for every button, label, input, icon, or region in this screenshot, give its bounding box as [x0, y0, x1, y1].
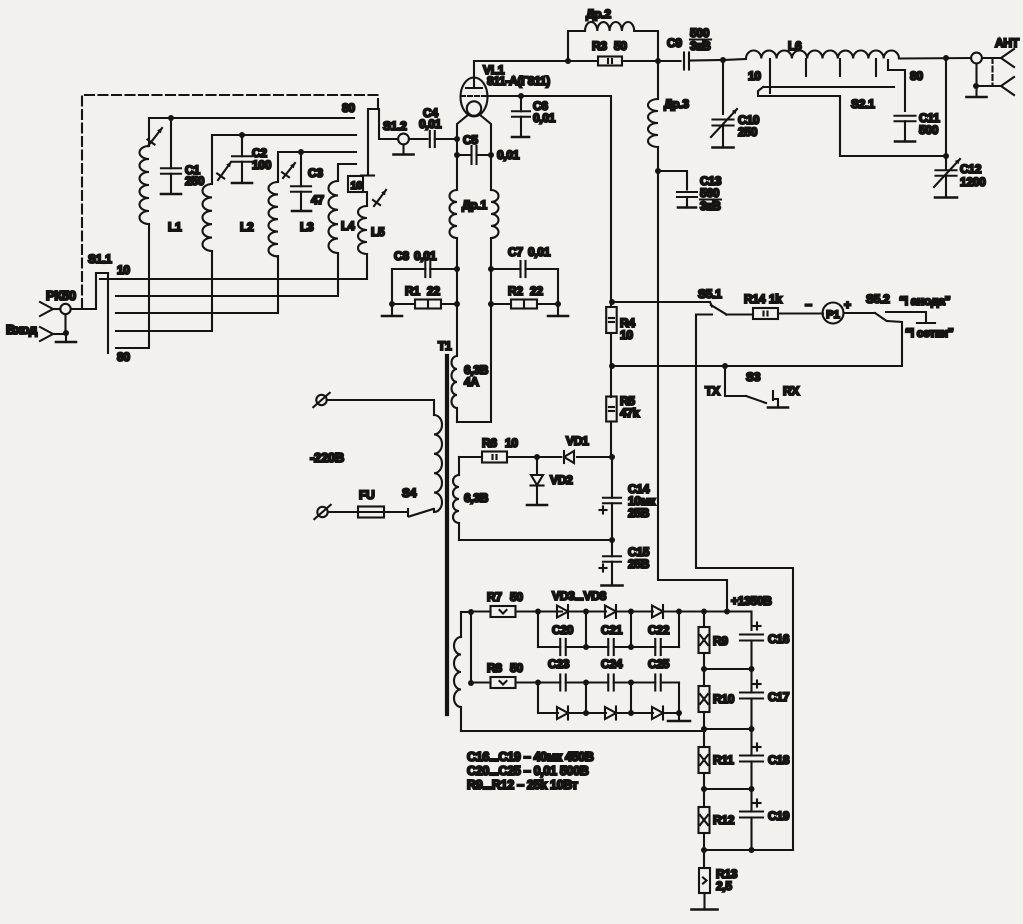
switch S5.2 blade	[875, 313, 886, 321]
svg-text:+1350В: +1350В	[731, 594, 772, 608]
wire L4 top to bus	[338, 164, 356, 181]
svg-text:S2.1: S2.1	[851, 97, 875, 111]
switch S4 contact tick	[407, 509, 409, 516]
ground R2	[548, 304, 568, 316]
resistor R1	[415, 300, 441, 309]
svg-text:6,3В: 6,3В	[464, 491, 489, 505]
junction R2 right	[555, 301, 561, 307]
ground bar C6	[512, 136, 529, 139]
svg-text:Др.3: Др.3	[664, 97, 689, 111]
resistor R5	[606, 397, 617, 422]
resistor R6	[482, 452, 507, 463]
wire +1350 to C16	[727, 612, 752, 631]
svg-text:C16: C16	[768, 632, 790, 646]
capacitor C22	[631, 639, 679, 655]
svg-text:811-А(Г811): 811-А(Г811)	[487, 74, 550, 88]
wire fork to PK50	[53, 308, 60, 310]
junction row1 n3	[676, 609, 682, 615]
capacitor C8	[392, 261, 457, 277]
svg-text:C22: C22	[648, 623, 670, 637]
trimmer arrow L1	[148, 128, 163, 146]
svg-text:“I анода”: “I анода”	[899, 294, 951, 308]
switch S4 blade	[409, 509, 433, 517]
junction C18 C19	[749, 786, 755, 792]
svg-text:C18: C18	[768, 753, 790, 767]
transformer T1 HV winding	[454, 612, 705, 731]
capacitor C14 (+)	[600, 457, 622, 540]
svg-text:R12: R12	[713, 813, 735, 827]
wire band bus 80	[116, 224, 149, 348]
wire R8 leads	[471, 681, 491, 683]
transformer T1 filament winding 6.3V 4A	[452, 356, 492, 422]
svg-text:L3: L3	[300, 220, 314, 234]
wire HV feed from Dr3 to +1350V node	[658, 171, 727, 610]
wire S1.2 wiper to input of S1.2 switch	[368, 109, 398, 176]
svg-text:C21: C21	[601, 623, 623, 637]
wire S2.1 to C12 node	[840, 96, 944, 156]
wire R12 lead top	[703, 789, 705, 807]
svg-text:VD1: VD1	[566, 434, 589, 448]
wire R12 lead bottom	[703, 833, 705, 850]
wire left rail to choke Dr1	[456, 155, 458, 190]
wire band bus line2	[116, 253, 338, 296]
resistor R7	[491, 606, 516, 617]
svg-text:C24: C24	[601, 657, 623, 671]
resistor R11	[699, 747, 710, 773]
ground bridge	[668, 713, 690, 721]
svg-text:50: 50	[510, 590, 523, 604]
wire R13 lead top	[703, 850, 705, 868]
choke Dr.1 right winding	[491, 190, 499, 238]
ground bar C1	[161, 193, 181, 196]
junction R11 R12	[701, 786, 707, 792]
junction C10 top	[720, 57, 726, 63]
svg-text:C20: C20	[552, 623, 574, 637]
ground C11	[895, 140, 915, 142]
wire L1 top to bus 80m	[149, 118, 354, 146]
ground antenna	[967, 86, 987, 97]
svg-text:FU: FU	[359, 488, 374, 502]
capacitor C3	[291, 152, 311, 210]
ground bar C2	[232, 182, 252, 185]
wire meter to S5.2	[844, 312, 876, 314]
junction +1350V node	[724, 609, 730, 615]
wire row4 c	[616, 712, 653, 714]
svg-text:R9...R12 – 25k 10Вт: R9...R12 – 25k 10Вт	[467, 778, 578, 792]
svg-text:50: 50	[510, 661, 523, 675]
wire antenna node down	[945, 58, 947, 156]
junction row3 n1	[583, 680, 589, 686]
switch S5.1 upper contact tick	[710, 302, 712, 307]
junction C5 right	[488, 152, 494, 158]
wire L6 80 tap to C11	[888, 60, 905, 111]
wire row4 a	[538, 712, 558, 714]
junction row2 n1	[583, 644, 589, 650]
svg-text:22: 22	[530, 284, 543, 298]
resistor R10	[699, 686, 710, 712]
ground input	[56, 333, 76, 342]
inductor L6	[746, 50, 899, 58]
capacitor C13	[677, 192, 697, 206]
ground S3	[768, 406, 788, 408]
wire tie mid	[704, 728, 752, 730]
wire tie R9R10-C16C17	[704, 668, 752, 670]
svg-text:0,01: 0,01	[419, 117, 442, 131]
svg-text:S1.1: S1.1	[88, 252, 112, 266]
svg-text:S4: S4	[402, 486, 417, 500]
wire R5 to bias junction	[610, 422, 612, 458]
svg-text:Т1: Т1	[438, 339, 452, 353]
capacitor C20	[538, 639, 586, 655]
wire C7 right down to R2	[557, 269, 559, 304]
resistor R13	[699, 868, 710, 893]
wire L6 end to antenna node	[899, 57, 971, 60]
svg-text:L6: L6	[788, 39, 802, 53]
svg-text:R11: R11	[713, 753, 734, 767]
junction C7 at right rail	[488, 266, 494, 272]
svg-text:+: +	[844, 298, 851, 312]
wire S5.1 to R14	[726, 313, 753, 315]
svg-text:R7: R7	[487, 590, 502, 604]
svg-text:250: 250	[738, 125, 758, 139]
wire row1 a	[538, 610, 562, 612]
svg-text:0,01: 0,01	[497, 148, 520, 162]
svg-text:АНТ: АНТ	[995, 36, 1020, 50]
junction R7 R8 input	[468, 609, 474, 615]
ground S1.2	[394, 144, 414, 154]
diode VD7	[605, 707, 616, 720]
trimmer arrow L5	[373, 190, 386, 206]
diode VD6	[557, 707, 568, 720]
svg-text:25В: 25В	[628, 557, 650, 571]
terminal mains lower	[314, 505, 330, 519]
wire R4 to junction	[610, 333, 612, 366]
ground C12	[935, 196, 957, 198]
tap L6 selected 10	[769, 59, 771, 93]
switch S5.1 blade	[711, 305, 727, 315]
wire VD1 leads	[537, 456, 561, 458]
antenna fork lower	[1001, 77, 1014, 95]
capacitor C5	[457, 146, 491, 164]
svg-text:4А: 4А	[464, 375, 479, 389]
svg-text:S3: S3	[746, 370, 761, 384]
wire row2 right riser	[678, 612, 680, 648]
wire R11 lead top	[703, 729, 705, 747]
svg-text:80: 80	[910, 69, 923, 83]
wire right rail below Dr1	[490, 238, 492, 422]
junction C14 C15 winding	[609, 537, 615, 543]
svg-text:1k: 1k	[769, 292, 782, 306]
capacitor C6	[512, 96, 530, 136]
svg-text:2,5: 2,5	[716, 879, 732, 893]
input connector fork upper	[40, 302, 53, 316]
svg-text:L4: L4	[341, 219, 355, 233]
junction C1 top	[168, 115, 174, 121]
ground C15	[602, 584, 623, 586]
wire S3 from return line	[725, 366, 746, 396]
svg-text:C7: C7	[508, 245, 523, 259]
wire R2 leads	[491, 303, 511, 305]
wire bank bottom	[704, 849, 793, 851]
capacitor C10 variable	[713, 120, 734, 147]
wire grid rail to R4	[610, 302, 612, 307]
junction R4 R5	[609, 363, 615, 369]
svg-text:РК50: РК50	[46, 288, 76, 303]
svg-text:VD3...VD8: VD3...VD8	[552, 589, 607, 603]
switch S1.1 wiper bar	[107, 273, 109, 353]
ground VD2	[527, 485, 547, 505]
trimmer arrow L2	[217, 162, 231, 180]
trimmer arrow L3	[282, 163, 295, 178]
wire R6 out	[507, 456, 537, 458]
wire S3 contact to ground	[773, 399, 778, 406]
svg-text:L1: L1	[168, 220, 182, 234]
junction C2 top	[239, 132, 245, 138]
switch S1.2 wafer tap box 10	[348, 176, 363, 192]
resistor R3	[598, 57, 622, 66]
junction row1 n1	[583, 609, 589, 615]
junction C13	[655, 168, 661, 174]
input connector fork lower	[40, 327, 53, 341]
svg-text:500: 500	[919, 123, 939, 137]
tap L6 2	[805, 59, 807, 76]
svg-text:R10: R10	[713, 692, 735, 706]
capacitor C9	[684, 53, 689, 70]
svg-text:S5.1: S5.1	[698, 287, 722, 301]
dashed screen box around input tank circuits	[82, 95, 378, 308]
inductor L1	[140, 146, 150, 224]
wire row1 c	[616, 610, 653, 612]
wire row4 b	[568, 712, 606, 714]
wire R1 leads	[392, 303, 415, 305]
capacitor C1	[161, 118, 181, 193]
resistor R2	[511, 300, 537, 309]
junction R1 left	[389, 301, 395, 307]
junction C3 top	[298, 149, 304, 155]
svg-text:80: 80	[117, 350, 130, 364]
svg-text:VD2: VD2	[550, 473, 573, 487]
wire row1 b	[568, 610, 606, 612]
wire R10 lead bottom	[703, 712, 705, 729]
switch S1.2 connector	[398, 134, 409, 145]
junction R9 R10	[701, 666, 707, 672]
svg-text:R9: R9	[713, 634, 728, 648]
junction R9 top	[701, 609, 707, 615]
wire R10 lead top	[703, 669, 705, 686]
junction R2 left at rail	[488, 301, 494, 307]
svg-text:250: 250	[185, 174, 205, 188]
choke Dr.2	[585, 22, 634, 31]
svg-text:1200: 1200	[960, 175, 986, 189]
junction VD1 VD2	[534, 454, 540, 460]
svg-text:10: 10	[505, 436, 518, 450]
svg-text:C12: C12	[960, 162, 982, 176]
wire left rail below Dr1	[456, 238, 458, 356]
resistor R12	[699, 807, 710, 833]
wire band bus 10	[116, 254, 367, 279]
svg-text:100: 100	[252, 158, 272, 172]
wire row4 n2 riser	[630, 683, 632, 714]
terminal mains upper	[313, 393, 329, 407]
wire R9 lead bottom	[703, 653, 705, 669]
resistor R4	[606, 307, 617, 333]
wire Dr2 right riser	[634, 31, 658, 61]
wire PK50 to S1.1	[71, 273, 108, 309]
svg-text:L5: L5	[371, 225, 385, 239]
junction bias VD1 out	[609, 454, 615, 460]
junction row4 n2	[628, 710, 634, 716]
junction row2 n2	[628, 644, 634, 650]
junction R10 R11 mid	[701, 726, 707, 732]
wire row3 right drop	[678, 683, 680, 714]
wire S1.2 to C4	[409, 138, 428, 140]
svg-text:47k: 47k	[620, 406, 640, 420]
tube VL1 grid dashes	[461, 95, 487, 97]
switch S1.1 contact tick	[100, 278, 115, 280]
svg-text:R1: R1	[405, 284, 420, 298]
diode VD8	[652, 707, 663, 720]
choke Dr.3	[648, 99, 658, 147]
junction C12 node	[943, 153, 949, 159]
arrow C12 variable	[934, 159, 960, 187]
connector PK50	[60, 304, 70, 314]
wire Dr3 lower	[657, 147, 659, 171]
svg-text:C25: C25	[648, 657, 670, 671]
junction R1 right at rail	[454, 301, 460, 307]
wire R11 lead bottom	[703, 773, 705, 789]
svg-text:R14: R14	[744, 292, 766, 306]
wire antenna shield down	[975, 64, 977, 87]
wire antenna shield	[976, 85, 1001, 87]
ground C13	[678, 206, 696, 208]
svg-text:10: 10	[748, 69, 761, 83]
svg-text:С20...С25 – 0,01 500В: С20...С25 – 0,01 500В	[467, 764, 589, 778]
wire antenna to fork	[982, 57, 1001, 59]
tube VL1 filament legs	[457, 115, 469, 140]
wire mains upper to primary	[327, 399, 434, 401]
capacitor C23	[538, 675, 586, 691]
junction row1 n2	[628, 609, 634, 615]
tube VL1 filament loop	[467, 101, 481, 115]
capacitor C18 (+)	[740, 729, 763, 789]
svg-text:560: 560	[700, 186, 720, 200]
svg-text:RХ: RХ	[783, 384, 799, 398]
wire L2 top to bus	[212, 135, 356, 184]
junction Dr2 right	[655, 58, 661, 64]
capacitor C19 (+)	[740, 789, 763, 850]
capacitor C16 (+)	[740, 623, 763, 670]
junction row1 n0	[535, 609, 541, 615]
capacitor C15 (+)	[600, 540, 622, 584]
resistor R14	[753, 308, 778, 319]
antenna fork upper	[1001, 49, 1014, 67]
svg-text:C9: C9	[667, 36, 682, 50]
wire C4 to filament rail	[435, 138, 457, 140]
tap L6 3	[839, 59, 841, 76]
tap L6 4	[875, 59, 877, 76]
svg-text:10: 10	[117, 263, 130, 277]
junction grid rail top	[609, 299, 615, 305]
svg-text:R8: R8	[487, 661, 502, 675]
svg-text:Вход: Вход	[6, 322, 38, 337]
transformer T1 primary winding	[434, 400, 442, 512]
diode VD3	[557, 605, 568, 618]
junction Dr2 left	[565, 58, 571, 64]
wire grid line to S5.1 contact	[612, 301, 710, 303]
inductor L3	[269, 182, 279, 256]
meter P1	[823, 303, 844, 324]
wire C9 to tank node	[689, 59, 723, 62]
wire box to L5 top	[363, 192, 367, 206]
junction row4 n1	[583, 710, 589, 716]
diode VD2	[531, 475, 544, 486]
fuse FU	[358, 507, 384, 518]
transformer T1 core	[445, 356, 449, 714]
wire anode line	[474, 60, 598, 62]
capacitor C24	[586, 675, 631, 691]
svg-text:C17: C17	[768, 690, 790, 704]
wire R14 to meter	[778, 312, 823, 314]
transformer T1 bias winding 6.3V	[453, 457, 612, 540]
junction S3 tap	[722, 363, 728, 369]
capacitor C12 variable	[936, 170, 957, 196]
svg-text:25В: 25В	[628, 506, 650, 520]
wire band bus line3	[116, 256, 278, 313]
svg-text:S5.2: S5.2	[866, 292, 890, 306]
svg-text:10: 10	[620, 328, 633, 342]
wire Dr2 left riser	[568, 31, 585, 61]
wire row2 n2 riser	[630, 612, 632, 648]
svg-text:3кВ: 3кВ	[690, 39, 711, 53]
resistor R9	[699, 627, 710, 653]
switch S5.2 contact I anoda	[886, 312, 926, 322]
switch S5.1 lower contact stub	[696, 315, 793, 851]
wire row2 n1 riser	[585, 612, 587, 648]
junction row3 n0	[535, 680, 541, 686]
svg-text:Др.1: Др.1	[462, 198, 487, 212]
junction R8 input	[468, 680, 474, 686]
capacitor C4	[430, 131, 435, 147]
junction antenna node	[943, 55, 949, 61]
junction bank bottom right	[749, 847, 755, 853]
capacitor C21	[586, 639, 631, 655]
arrow C10 variable	[711, 109, 737, 137]
switch S1.2 wiper contact tick	[361, 174, 374, 176]
junction C5 left	[454, 152, 460, 158]
svg-text:L2: L2	[240, 220, 254, 234]
svg-text:C5: C5	[463, 133, 478, 147]
wire C10 lead	[722, 60, 724, 114]
ground C10	[713, 146, 734, 148]
inductor L4	[329, 181, 339, 253]
svg-text:S1.2: S1.2	[383, 119, 407, 133]
junction input ground	[63, 330, 69, 336]
antenna cable dashed	[991, 58, 993, 86]
svg-text:10: 10	[351, 180, 363, 192]
capacitor C25	[631, 675, 679, 691]
switch S5.2 contact tick anoda	[917, 322, 935, 324]
wire R7 leads	[471, 610, 491, 612]
switch S2.1 wiper upper bar	[763, 86, 894, 88]
wire S4 to primary bottom	[433, 509, 435, 512]
svg-text:22: 22	[427, 284, 440, 298]
capacitor C11	[895, 116, 916, 140]
junction row4 out	[676, 710, 682, 716]
svg-text:47: 47	[311, 193, 324, 207]
wire C13 branch	[658, 171, 687, 190]
svg-text:C23: C23	[548, 657, 570, 671]
wire row4 n1 riser	[585, 683, 587, 714]
